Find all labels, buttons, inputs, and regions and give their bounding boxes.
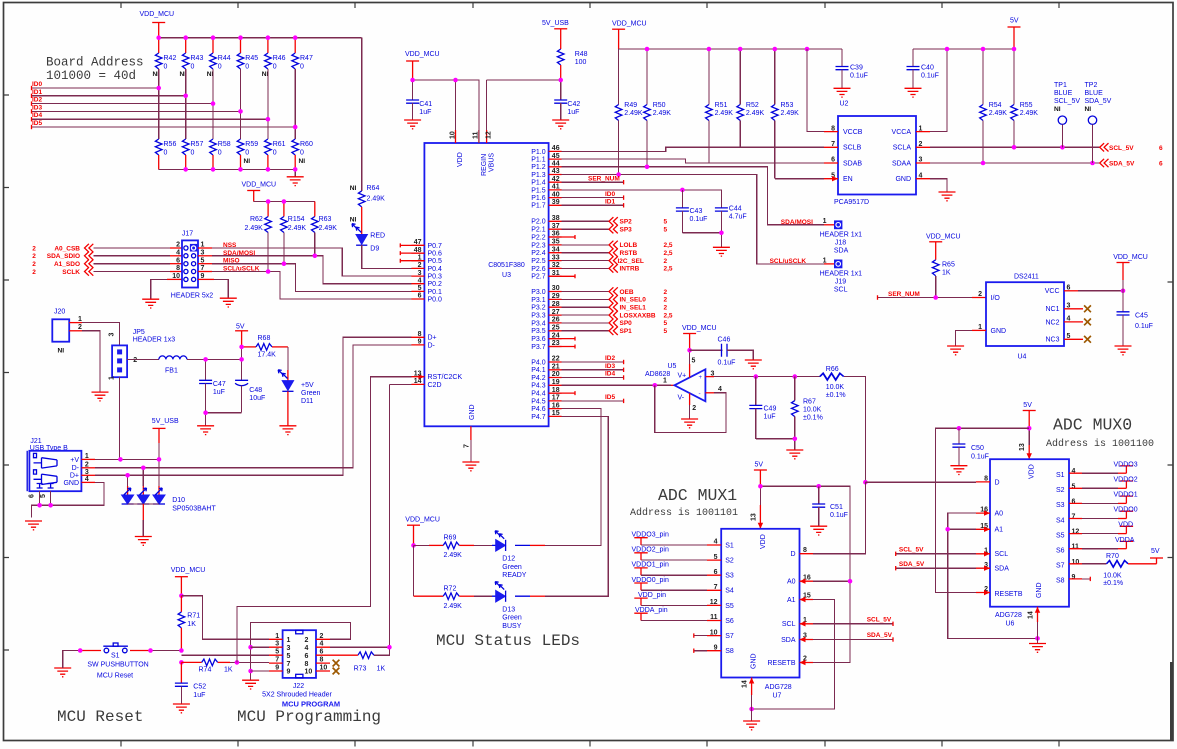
ground (C49/R67): [786, 450, 803, 459]
svg-text:RST/C2CK: RST/C2CK: [428, 374, 463, 381]
resistor R46: [262, 38, 286, 78]
wire D common to U6: [865, 481, 976, 483]
svg-text:SDA_5V: SDA_5V: [1085, 98, 1112, 105]
svg-text:C50: C50: [971, 445, 984, 452]
svg-text:22: 22: [552, 356, 560, 363]
svg-text:SCL_5V: SCL_5V: [1109, 145, 1134, 152]
capacitor C46: [690, 337, 754, 367]
power flag VDD_pin: [634, 592, 707, 606]
svg-text:5V: 5V: [1023, 402, 1032, 409]
svg-text:101000 = 40d: 101000 = 40d: [46, 69, 136, 83]
svg-text:GND: GND: [895, 176, 911, 183]
svg-text:S8: S8: [725, 648, 734, 655]
off-page connector SCLK: [32, 267, 93, 276]
svg-text:P3.5: P3.5: [531, 328, 546, 335]
svg-text:7: 7: [463, 444, 470, 448]
svg-text:1K: 1K: [377, 666, 386, 673]
svg-text:C44: C44: [729, 206, 742, 213]
svg-text:P1.4: P1.4: [531, 180, 546, 187]
svg-text:A0_CSB: A0_CSB: [54, 245, 80, 252]
wire P1.2 to J18: [562, 165, 824, 225]
power flag VDDA_pin: [634, 607, 707, 621]
wire bottom bus: [159, 169, 296, 176]
svg-text:1: 1: [663, 377, 667, 384]
capacitor C40: [907, 49, 939, 88]
ground (J17 pin10): [142, 299, 159, 308]
svg-text:S3: S3: [725, 573, 734, 580]
svg-text:8: 8: [305, 661, 309, 668]
wire ID0 (P1.6): [562, 191, 624, 200]
power flag VDD: [1082, 522, 1133, 534]
svg-text:R47: R47: [300, 55, 313, 62]
svg-text:U2: U2: [840, 101, 849, 108]
wire U6 GND pin14: [1028, 607, 1041, 644]
svg-text:V-: V-: [678, 395, 685, 402]
ground (J21 shield): [25, 521, 42, 530]
capacitor C49: [749, 377, 776, 439]
pin stub P0.6 (NC): [400, 251, 424, 255]
svg-text:TP1: TP1: [1054, 82, 1067, 89]
svg-text:BLUE: BLUE: [1054, 90, 1073, 97]
wire 5V bus: [913, 48, 1014, 50]
ground (C46): [745, 360, 762, 369]
wire RST riser to U3 pin13: [237, 377, 412, 663]
off-page connector LOLB (P2.3): [562, 241, 673, 250]
svg-text:U3: U3: [502, 272, 511, 279]
wire U2 GND: [930, 179, 947, 192]
svg-text:MCU Reset: MCU Reset: [97, 673, 133, 680]
pin EN arrow: [832, 176, 838, 181]
wire VDD to R72: [413, 545, 415, 596]
pin stubs J22: [269, 639, 330, 671]
resistor R74: [199, 659, 270, 673]
ground (U4): [947, 346, 964, 355]
svg-text:R154: R154: [288, 216, 305, 223]
svg-text:R54: R54: [989, 102, 1002, 109]
svg-text:GND: GND: [991, 328, 1007, 335]
svg-text:R64: R64: [367, 185, 380, 192]
off-page connector INTRB (P2.6): [562, 264, 673, 273]
svg-text:38: 38: [552, 215, 560, 222]
wire U4 VCC to VDD_MCU: [1064, 289, 1125, 294]
wire S8 stub: [694, 649, 721, 653]
node ID2: [32, 97, 214, 106]
pin 7 GND bottom: [463, 426, 471, 462]
capacitor C48 (polarized): [235, 359, 265, 412]
svg-text:LOLB: LOLB: [620, 242, 638, 249]
svg-text:2.49K: 2.49K: [245, 225, 264, 232]
svg-text:21: 21: [552, 364, 560, 371]
wire reset net to J22.5: [181, 654, 269, 656]
resistor R72: [414, 585, 475, 610]
svg-text:A0: A0: [995, 511, 1004, 518]
svg-text:R48: R48: [575, 51, 588, 58]
power flag 5V_USB (R48): [542, 20, 569, 49]
junction dots top bus: [156, 35, 297, 40]
svg-text:J19: J19: [835, 279, 846, 286]
ground (C40): [905, 88, 922, 97]
svg-text:J20: J20: [54, 309, 65, 316]
svg-text:2,5: 2,5: [664, 242, 673, 249]
pin stubs U3 top: [456, 130, 487, 143]
resistor R52: [737, 49, 765, 147]
IC U2 PCA9517D: [831, 101, 922, 207]
svg-text:P1.6: P1.6: [531, 195, 546, 202]
svg-text:R69: R69: [444, 535, 457, 542]
svg-text:NI: NI: [350, 217, 357, 224]
svg-text:1uF: 1uF: [213, 389, 225, 396]
junction dots ID rows: [156, 86, 297, 130]
wire P1.3 to J19: [562, 172, 824, 264]
wire U7 GND pin14: [742, 678, 755, 722]
svg-text:S4: S4: [1056, 517, 1065, 524]
ground (C52): [173, 704, 190, 713]
power flag VDD_MCU (R65): [926, 233, 961, 259]
resistor R67: [792, 377, 823, 439]
svg-text:D+: D+: [428, 335, 437, 342]
svg-text:1K: 1K: [224, 667, 233, 674]
svg-text:2: 2: [664, 289, 668, 296]
svg-text:R49: R49: [624, 102, 637, 109]
power flag VDD_MCU (C45): [1113, 254, 1148, 291]
svg-text:2.49K: 2.49K: [624, 110, 643, 117]
resistor R73: [330, 652, 385, 673]
svg-text:VDD_MCU: VDD_MCU: [405, 51, 440, 58]
svg-text:P4.0: P4.0: [531, 359, 546, 366]
svg-text:43: 43: [552, 168, 560, 175]
svg-text:J22: J22: [293, 683, 304, 690]
svg-text:A1: A1: [787, 597, 796, 604]
svg-text:16: 16: [552, 402, 560, 409]
svg-text:ID5: ID5: [32, 120, 43, 127]
svg-text:34: 34: [552, 246, 560, 253]
power flag VDD_MCU (board address): [140, 11, 175, 38]
svg-text:J18: J18: [835, 240, 846, 247]
svg-text:0.1uF: 0.1uF: [690, 216, 708, 223]
capacitor C42: [554, 80, 580, 120]
svg-text:S3: S3: [1056, 502, 1065, 509]
svg-text:4: 4: [718, 386, 722, 393]
svg-text:VDD_MCU: VDD_MCU: [612, 21, 647, 28]
no-connect NC1: [1064, 305, 1091, 312]
svg-text:GND: GND: [63, 480, 79, 487]
pin stub P4.4 (NC): [549, 391, 575, 395]
svg-text:1: 1: [823, 218, 827, 225]
svg-text:+V: +V: [70, 457, 79, 464]
svg-text:2: 2: [664, 258, 668, 265]
svg-text:VDDA: VDDA: [1115, 537, 1135, 544]
pin stub P2.2 (NC): [549, 235, 575, 239]
svg-text:25: 25: [552, 325, 560, 332]
wire U4 GND: [956, 330, 986, 346]
resistor R50: [644, 49, 672, 167]
svg-text:C39: C39: [850, 65, 863, 72]
svg-text:6: 6: [1159, 161, 1163, 168]
svg-text:A1_SDO: A1_SDO: [54, 261, 80, 268]
svg-text:P0.0: P0.0: [428, 296, 443, 303]
svg-text:2.49K: 2.49K: [1020, 110, 1039, 117]
wire FB1 to 5V node: [187, 358, 242, 360]
svg-text:10: 10: [450, 131, 457, 139]
ground (C47/C48): [197, 426, 214, 435]
svg-text:GND: GND: [469, 404, 476, 420]
svg-text:0: 0: [245, 150, 249, 157]
svg-text:0.1uF: 0.1uF: [850, 73, 868, 80]
svg-text:SCLB: SCLB: [843, 145, 862, 152]
wire 5V to C50 and RESETB: [936, 426, 1030, 593]
wire column verticals between resistor rows: [159, 69, 296, 139]
capacitor C47: [199, 359, 226, 412]
svg-text:2: 2: [133, 357, 137, 364]
svg-text:DS2411: DS2411: [1014, 274, 1039, 281]
resistor R48: [557, 49, 587, 80]
svg-text:2: 2: [418, 262, 422, 269]
svg-text:27: 27: [552, 309, 560, 316]
pin arrows U7 right: [800, 579, 806, 666]
pin stub P3.7 (NC): [549, 345, 575, 349]
svg-text:SDA_5V: SDA_5V: [867, 632, 893, 639]
svg-text:S5: S5: [725, 603, 734, 610]
svg-text:8: 8: [418, 331, 422, 338]
svg-text:C49: C49: [764, 406, 777, 413]
svg-text:0.1uF: 0.1uF: [830, 512, 848, 519]
LED D9: [350, 207, 385, 253]
svg-text:NI: NI: [244, 158, 251, 165]
svg-text:NC1: NC1: [1045, 306, 1059, 313]
svg-text:R72: R72: [444, 585, 457, 592]
wire ID3 (P4.1): [562, 363, 624, 372]
svg-text:26: 26: [552, 317, 560, 324]
svg-text:1: 1: [78, 316, 82, 323]
node ID1: [32, 89, 186, 98]
wire V- pin 2 to ground: [689, 393, 691, 419]
svg-text:R53: R53: [781, 102, 794, 109]
svg-text:J17: J17: [182, 231, 193, 238]
capacitor C51: [812, 486, 848, 526]
svg-text:ID0: ID0: [605, 191, 616, 198]
resistor R65: [932, 260, 955, 298]
svg-text:P1.7: P1.7: [531, 203, 546, 210]
svg-text:ID1: ID1: [32, 89, 43, 96]
svg-text:0: 0: [191, 64, 195, 71]
resistor R57: [182, 139, 203, 169]
svg-text:P1.1: P1.1: [531, 157, 546, 164]
svg-text:1K: 1K: [187, 621, 196, 628]
svg-text:ID4: ID4: [32, 112, 43, 119]
svg-text:S7: S7: [1056, 563, 1065, 570]
svg-text:9: 9: [1072, 574, 1076, 581]
connector J21 USB Type B: [27, 438, 89, 491]
svg-text:2: 2: [664, 305, 668, 312]
svg-text:SER_NUM: SER_NUM: [888, 291, 920, 298]
svg-text:6: 6: [305, 653, 309, 660]
svg-text:S8: S8: [1056, 578, 1065, 585]
svg-text:5V_USB: 5V_USB: [152, 418, 179, 425]
svg-text:5V: 5V: [236, 323, 245, 330]
svg-text:VBUS: VBUS: [489, 153, 496, 172]
svg-text:P2.4: P2.4: [531, 250, 546, 257]
svg-text:ID2: ID2: [32, 97, 43, 104]
wire R74 row: [179, 660, 202, 665]
IC U4 DS2411: [978, 274, 1070, 361]
svg-text:2: 2: [664, 297, 668, 304]
power flag 5V (USB filtered): [235, 323, 248, 359]
svg-text:NI: NI: [350, 185, 357, 192]
svg-text:ID2: ID2: [605, 355, 616, 362]
wire P1.5 to C43/C44: [562, 188, 722, 208]
wire VDD_MCU pullup bus: [619, 48, 842, 50]
LED D13: [474, 582, 545, 630]
svg-text:0: 0: [218, 150, 222, 157]
wire SCL_5V to U6: [896, 546, 976, 556]
svg-text:R57: R57: [191, 141, 204, 148]
svg-text:P3.4: P3.4: [531, 320, 546, 327]
wire D13 to P4.7: [545, 416, 608, 596]
svg-text:SP0503BAHT: SP0503BAHT: [172, 506, 216, 513]
svg-text:20: 20: [552, 371, 560, 378]
svg-text:D9: D9: [370, 246, 379, 253]
svg-text:P0.3: P0.3: [428, 274, 443, 281]
wire VDD_MCU to pins 10/11: [413, 80, 479, 143]
wire C43/C44 bottoms: [682, 231, 723, 248]
pin stub P3.6 (NC): [549, 337, 575, 341]
svg-text:R44: R44: [218, 55, 231, 62]
svg-text:0.1uF: 0.1uF: [718, 360, 736, 367]
wire ID1 (P1.7): [562, 199, 624, 208]
svg-text:13: 13: [1019, 443, 1026, 451]
capacitor C45: [1117, 291, 1153, 346]
svg-text:P0.6: P0.6: [428, 251, 443, 258]
svg-text:5V_USB: 5V_USB: [542, 20, 569, 27]
svg-text:30: 30: [552, 285, 560, 292]
off-page connector SP3 (P2.1): [562, 225, 668, 234]
off-page connector SCL_5V: [1100, 143, 1163, 152]
svg-text:C51: C51: [830, 504, 843, 511]
svg-text:10uF: 10uF: [249, 395, 265, 402]
svg-text:0: 0: [273, 64, 277, 71]
svg-text:IN_SEL0: IN_SEL0: [620, 297, 647, 304]
wire D12 to P4.6: [545, 409, 601, 546]
svg-text:2: 2: [32, 261, 36, 268]
svg-text:HEADER 5x2: HEADER 5x2: [171, 293, 214, 300]
svg-text:S6: S6: [725, 618, 734, 625]
IC U7 ADG728: [710, 529, 811, 700]
svg-text:46: 46: [552, 145, 560, 152]
power flag 5V_USB (J21): [152, 418, 179, 459]
resistor R71: [178, 596, 200, 651]
svg-text:R66: R66: [826, 366, 839, 373]
svg-text:0.1uF: 0.1uF: [921, 73, 939, 80]
header J19 (SCL): [770, 257, 863, 293]
wire ID4 (P4.2): [562, 371, 624, 380]
svg-text:4: 4: [1072, 468, 1076, 475]
svg-text:ID3: ID3: [32, 104, 43, 111]
svg-text:HEADER 1x3: HEADER 1x3: [133, 337, 176, 344]
wire P1.1 to U2 SDAB: [562, 159, 824, 163]
resistor R49: [615, 49, 643, 175]
ground (U5 V-): [681, 419, 698, 428]
svg-text:10.0K: 10.0K: [1103, 573, 1122, 580]
svg-text:ADG728: ADG728: [995, 612, 1022, 619]
svg-text:2: 2: [176, 242, 180, 249]
wire opamp output: [705, 374, 819, 379]
svg-text:5V: 5V: [755, 462, 764, 469]
svg-text:5V: 5V: [1010, 18, 1019, 25]
svg-text:D13: D13: [502, 606, 515, 613]
svg-text:D: D: [995, 479, 1000, 486]
ground (C50): [950, 466, 967, 475]
svg-text:JP5: JP5: [133, 329, 145, 336]
ground (J20.2): [92, 392, 109, 401]
svg-text:R68: R68: [258, 335, 271, 342]
svg-text:0.1uF: 0.1uF: [1135, 323, 1153, 330]
svg-text:SCL_5V: SCL_5V: [1054, 98, 1080, 105]
off-page connector SDA_SDIO: [32, 252, 93, 261]
off-page connector A1_SDO: [32, 260, 93, 269]
svg-text:2.49K: 2.49K: [653, 110, 672, 117]
node ID3: [32, 104, 241, 113]
svg-text:SDA: SDA: [834, 248, 849, 255]
svg-text:R46: R46: [273, 55, 286, 62]
svg-text:R51: R51: [715, 102, 728, 109]
svg-text:41: 41: [552, 184, 560, 191]
resistor R43: [180, 38, 204, 78]
svg-text:28: 28: [552, 301, 560, 308]
pin numbers U3 right: [552, 145, 560, 417]
svg-text:ADC MUX1: ADC MUX1: [658, 486, 737, 505]
svg-text:0: 0: [164, 150, 168, 157]
svg-text:P3.3: P3.3: [531, 313, 546, 320]
svg-text:R62: R62: [250, 216, 263, 223]
svg-text:13: 13: [414, 370, 422, 377]
ferrite bead FB1: [159, 356, 187, 375]
resistor R69: [414, 535, 475, 560]
wire J22 ground loop (pins 2,3,9): [248, 623, 350, 681]
node ID0: [32, 81, 159, 90]
wire S7 stub: [694, 633, 721, 637]
svg-text:0: 0: [300, 150, 304, 157]
svg-text:P2.0: P2.0: [531, 219, 546, 226]
svg-text:3: 3: [287, 645, 291, 652]
svg-text:R52: R52: [746, 102, 759, 109]
svg-text:R42: R42: [164, 55, 177, 62]
wire NSS J17.1 to U3 P0.3: [198, 248, 411, 276]
svg-text:P2.2: P2.2: [531, 234, 546, 241]
resistor R61: [265, 139, 286, 169]
svg-text:VCC: VCC: [1045, 288, 1060, 295]
off-page connector SDA_5V: [1100, 159, 1163, 168]
ground (C42): [552, 120, 569, 129]
ground (C39): [834, 88, 851, 97]
svg-text:VDD: VDD: [1118, 522, 1133, 529]
svg-text:19: 19: [552, 379, 560, 386]
svg-text:10.0K: 10.0K: [803, 407, 822, 414]
off-page connector SP0 (P3.4): [562, 319, 668, 328]
svg-text:C45: C45: [1135, 313, 1148, 320]
svg-text:2.49K: 2.49K: [989, 110, 1008, 117]
svg-text:P4.1: P4.1: [531, 367, 546, 374]
power flag VDDO0: [1082, 507, 1138, 519]
svg-text:U7: U7: [773, 693, 782, 700]
svg-text:P4.2: P4.2: [531, 375, 546, 382]
svg-text:HEADER 1x1: HEADER 1x1: [820, 232, 863, 239]
svg-text:R61: R61: [273, 141, 286, 148]
svg-text:6: 6: [29, 494, 36, 498]
wire D- row to U3 pin9: [81, 345, 411, 468]
wire J20.2 to ground: [69, 331, 100, 392]
ground (C51): [810, 526, 827, 535]
wire SER_NUM to U4 I/O: [878, 291, 987, 300]
